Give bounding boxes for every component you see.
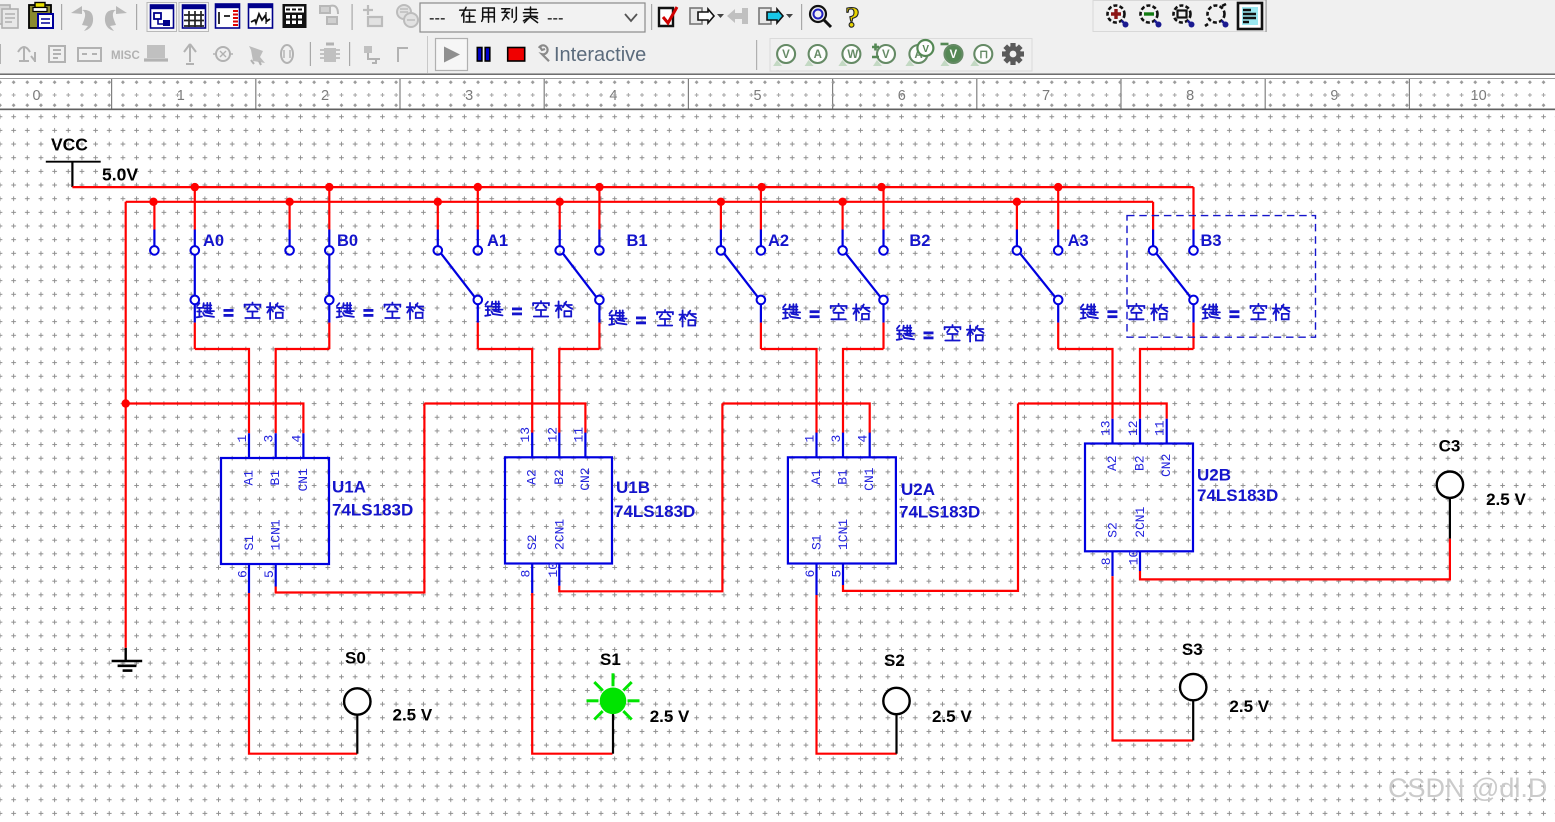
wire GND feed to switch B3 <box>1152 202 1154 230</box>
find icon <box>810 6 831 27</box>
zoom in icon <box>1108 6 1129 28</box>
full page icon <box>1238 3 1262 29</box>
wire U2A pin 5 carry out <box>842 564 844 586</box>
svg-text:U2A: U2A <box>901 480 935 499</box>
separator <box>651 4 652 30</box>
key=space label for switch B1 <box>609 310 696 327</box>
wire from switch A0 pole <box>194 323 196 349</box>
wire from switch A3 pole <box>1057 323 1059 349</box>
probe S0 lead wire <box>356 715 358 754</box>
svg-text:5.0V: 5.0V <box>102 165 138 185</box>
svg-text:⊓: ⊓ <box>979 49 988 61</box>
svg-text:3: 3 <box>829 435 844 443</box>
svg-text:2.5 V: 2.5 V <box>1486 490 1526 509</box>
database icon (disabled) <box>397 5 418 27</box>
ERC check icon <box>659 7 677 26</box>
svg-text:V: V <box>922 44 929 55</box>
svg-text:S2: S2 <box>1106 522 1121 538</box>
svg-text:1CN1: 1CN1 <box>269 519 284 550</box>
wire VCC feed to switch B1 <box>598 187 600 229</box>
VCC power symbol <box>46 162 101 187</box>
svg-text:13: 13 <box>518 427 533 443</box>
VCC rail wire <box>72 186 1193 188</box>
svg-text:U1A: U1A <box>332 478 366 497</box>
wire VCC feed to switch A1 <box>477 187 479 229</box>
svg-text:2CN1: 2CN1 <box>552 519 567 550</box>
wire U1B pin 10 carry out <box>558 564 560 586</box>
voltage probe S3 <box>1180 674 1206 700</box>
svg-text:A3: A3 <box>1068 232 1089 250</box>
svg-text:6: 6 <box>236 570 251 578</box>
in-use list dropdown <box>420 3 645 32</box>
zoom fit icon <box>1205 4 1229 28</box>
wire from switch B0 pole <box>328 323 330 349</box>
svg-text:B1: B1 <box>627 232 648 250</box>
svg-text:5: 5 <box>830 570 845 578</box>
svg-text:CSDN @dl.D: CSDN @dl.D <box>1388 773 1547 803</box>
probe S3 lead wire <box>1192 700 1194 740</box>
stop button <box>508 48 525 62</box>
key=space label for switch B0 <box>337 303 424 320</box>
breadboard button <box>216 4 240 28</box>
grapher button <box>249 4 273 28</box>
schematic view button <box>147 3 177 32</box>
wire from switch A1 pole <box>477 323 479 349</box>
svg-text:A2: A2 <box>525 469 540 485</box>
svg-text:VCC: VCC <box>51 135 88 155</box>
wire switch A1 to U1B pin 13 <box>478 349 532 433</box>
wire VCC feed to switch B0 <box>328 187 330 229</box>
svg-text:A1: A1 <box>809 469 824 485</box>
svg-text:S0: S0 <box>345 649 366 668</box>
settings gear icon <box>1002 43 1024 65</box>
svg-text:A2: A2 <box>768 232 789 250</box>
svg-text:B3: B3 <box>1201 232 1222 250</box>
key=space label for switch A2 <box>783 304 870 321</box>
svg-text:S1: S1 <box>600 650 621 669</box>
IC U1A pin stubs <box>249 433 303 458</box>
wire U2B pin 8 sum output <box>1111 551 1113 576</box>
key=space label for switch A1 <box>485 301 572 318</box>
svg-text:2CN1: 2CN1 <box>1133 506 1148 537</box>
svg-text:U2B: U2B <box>1197 466 1231 485</box>
wire VCC feed to switch A3 <box>1057 187 1059 229</box>
zoom area icon <box>1174 6 1195 28</box>
svg-text:11: 11 <box>1153 420 1168 436</box>
svg-text:CN2: CN2 <box>578 467 593 490</box>
svg-text:74LS183D: 74LS183D <box>614 502 695 521</box>
svg-text:2.5 V: 2.5 V <box>1229 697 1269 716</box>
probe S1 lead wire <box>612 714 614 754</box>
wire VCC feed to switch B3 <box>1192 187 1194 229</box>
wire U2B pin 10 carry out to probe C3 <box>1139 551 1141 571</box>
wire junctions <box>122 183 1063 408</box>
svg-text:CN1: CN1 <box>862 467 877 491</box>
svg-text:A2: A2 <box>1105 455 1120 471</box>
GND rail wire <box>126 201 1153 203</box>
switch A0 (SPDT key=space) <box>150 230 199 323</box>
ground wire from GND rail <box>125 202 127 648</box>
svg-text:---: --- <box>547 10 563 28</box>
svg-text:10: 10 <box>546 562 561 578</box>
wire switch B2 to U2A pin 3 <box>843 349 884 433</box>
wire VCC feed to switch A0 <box>194 187 196 229</box>
wire VCC feed to switch A2 <box>760 187 762 229</box>
svg-text:---: --- <box>429 10 445 28</box>
svg-text:S1: S1 <box>242 535 257 551</box>
switch B1 (SPDT key=space) <box>555 230 603 323</box>
svg-text:10: 10 <box>1127 550 1142 566</box>
probe S2 lead wire <box>895 714 897 754</box>
svg-text:S3: S3 <box>1182 640 1203 659</box>
op-amp-style IC body U1B 74LS183D <box>505 457 612 563</box>
svg-text:4: 4 <box>856 435 871 443</box>
switch B2 (SPDT key=space) <box>838 230 888 323</box>
key=space label for switch A0 <box>197 303 284 320</box>
separator <box>61 4 62 30</box>
wire GND feed to switch A0 <box>153 202 155 230</box>
svg-text:A1: A1 <box>487 232 508 250</box>
wire U1A carry to U1B pin 11 <box>424 404 585 434</box>
svg-text:1CN1: 1CN1 <box>836 519 851 550</box>
back icon (disabled) <box>727 8 748 24</box>
wire switch B1 to U1B pin 12 <box>559 349 599 433</box>
simulation panel border <box>427 36 428 73</box>
svg-text:1: 1 <box>803 435 818 443</box>
wire GND feed to switch A2 <box>720 202 722 230</box>
svg-text:CN1: CN1 <box>296 468 311 492</box>
wire VCC feed to switch B2 <box>882 187 884 229</box>
svg-text:W: W <box>847 49 858 61</box>
wire from switch B3 pole <box>1192 323 1194 349</box>
svg-text:S2: S2 <box>525 534 540 550</box>
voltage probe S0 <box>344 688 370 714</box>
export icon 2 <box>759 8 793 24</box>
switch A2 (SPDT key=space) <box>717 230 766 323</box>
spreadsheet button <box>283 4 307 28</box>
grid view button <box>179 3 209 32</box>
wire GND feed to switch B1 <box>559 202 561 230</box>
ground <box>112 648 143 671</box>
zoom out icon <box>1141 6 1162 28</box>
separator <box>136 4 137 30</box>
svg-text:2.5 V: 2.5 V <box>650 707 690 726</box>
wire U1B carry to U2A pin 4 <box>722 404 869 434</box>
toolbar background <box>0 0 1555 74</box>
op-amp-style IC body U1A 74LS183D <box>221 458 329 564</box>
op-amp-style IC body U2A 74LS183D <box>788 457 896 563</box>
wire from switch B1 pole <box>598 323 600 349</box>
svg-text:B2: B2 <box>552 469 567 485</box>
LED indicator probe S1 (lit) <box>587 673 640 719</box>
undo icon <box>71 6 93 31</box>
svg-text:2.5 V: 2.5 V <box>932 707 972 726</box>
switch A1 (SPDT key=space) <box>434 230 483 323</box>
svg-text:A0: A0 <box>203 232 224 250</box>
export icon 1 <box>690 8 724 24</box>
svg-text:2.5 V: 2.5 V <box>393 706 433 725</box>
key=space label for switch B2 <box>897 325 984 342</box>
op-amp-style IC body U2B 74LS183D <box>1085 444 1193 552</box>
wire GND feed to switch A3 <box>1016 202 1018 230</box>
svg-text:3: 3 <box>262 435 277 443</box>
wire U1A pin 5 carry out <box>275 564 277 587</box>
svg-text:12: 12 <box>545 427 560 443</box>
svg-text:CN2: CN2 <box>1159 454 1174 477</box>
separator <box>801 4 802 30</box>
wire switch B3 to U2B pin 12 <box>1140 349 1194 419</box>
wrench icon <box>539 45 549 61</box>
svg-text:74LS183D: 74LS183D <box>332 501 413 520</box>
svg-text:V: V <box>882 49 890 61</box>
svg-text:5: 5 <box>262 570 277 578</box>
voltage probe C3 <box>1437 472 1463 498</box>
IC U2A pin stubs <box>817 433 870 458</box>
new-sheet icon (disabled) <box>363 5 382 26</box>
probe C3 lead wire <box>1449 498 1451 539</box>
wire GND feed to switch A1 <box>437 202 439 230</box>
wire switch A3 to U2B pin 13 <box>1058 349 1112 419</box>
wire U2A pin 6 sum output <box>815 564 817 596</box>
svg-text:C3: C3 <box>1439 437 1461 456</box>
svg-text:A1: A1 <box>242 470 257 486</box>
row2 icons (disabled component toolbar) <box>0 44 101 64</box>
copy icon <box>0 5 18 28</box>
svg-text:B1: B1 <box>836 469 851 485</box>
svg-text:11: 11 <box>571 427 586 443</box>
svg-text:B2: B2 <box>1133 455 1148 471</box>
paste icon <box>29 3 53 29</box>
wire switch B0 to U1A pin 3 <box>276 349 330 433</box>
svg-text:MISC: MISC <box>111 50 140 62</box>
wire from switch B2 pole <box>882 323 884 349</box>
svg-text:A: A <box>814 49 822 61</box>
wire U2A carry to U2B pin 11 <box>1018 404 1167 419</box>
svg-text:V: V <box>950 49 958 61</box>
probe toolbar group <box>770 39 1032 72</box>
run button <box>436 39 468 71</box>
svg-text:8: 8 <box>519 570 534 578</box>
ruler <box>0 79 1555 109</box>
svg-text:S2: S2 <box>884 651 905 670</box>
svg-text:13: 13 <box>1099 420 1114 436</box>
switch B3 (SPDT key=space) <box>1149 230 1198 323</box>
svg-text:?: ? <box>845 1 860 34</box>
wire switch A0 to U1A pin 1 <box>195 349 249 433</box>
key=space label for switch A3 <box>1081 304 1168 321</box>
wire GND to U1A pin 4 carry-in <box>126 404 304 434</box>
key=space label for switch B3 <box>1203 304 1290 321</box>
switch B0 (SPDT key=space) <box>285 230 333 323</box>
svg-text:12: 12 <box>1126 420 1141 436</box>
pause button <box>477 48 490 62</box>
IC U1B pin stubs <box>532 433 585 458</box>
voltage probe S2 <box>883 688 909 714</box>
wire GND feed to switch B2 <box>841 202 843 230</box>
svg-text:8: 8 <box>1099 557 1114 565</box>
switch A3 (SPDT key=space) <box>1013 230 1063 323</box>
zoom toolbar group <box>1093 1 1266 32</box>
svg-text:B0: B0 <box>337 232 358 250</box>
wire U1A pin 6 sum output <box>248 564 250 593</box>
separator <box>352 4 353 30</box>
svg-text:74LS183D: 74LS183D <box>899 503 980 522</box>
hierarchy button (disabled) <box>320 6 338 24</box>
svg-text:S1: S1 <box>810 534 825 550</box>
wire U1B pin 8 sum output <box>531 564 533 594</box>
svg-text:Interactive: Interactive <box>554 44 646 66</box>
svg-text:1: 1 <box>235 435 250 443</box>
svg-text:U1B: U1B <box>616 478 650 497</box>
svg-text:B2: B2 <box>909 232 930 250</box>
IC U2B pin stubs <box>1113 419 1167 444</box>
wire switch A2 to U2A pin 1 <box>761 349 817 433</box>
svg-text:B1: B1 <box>268 470 283 486</box>
svg-text:V: V <box>782 49 790 61</box>
svg-text:74LS183D: 74LS183D <box>1197 486 1278 505</box>
wire from switch A2 pole <box>760 323 762 349</box>
svg-text:4: 4 <box>289 435 304 443</box>
svg-text:6: 6 <box>803 570 818 578</box>
redo icon <box>105 6 127 31</box>
selection box around switch B3 <box>1127 216 1316 338</box>
wire GND feed to switch B0 <box>289 202 291 230</box>
